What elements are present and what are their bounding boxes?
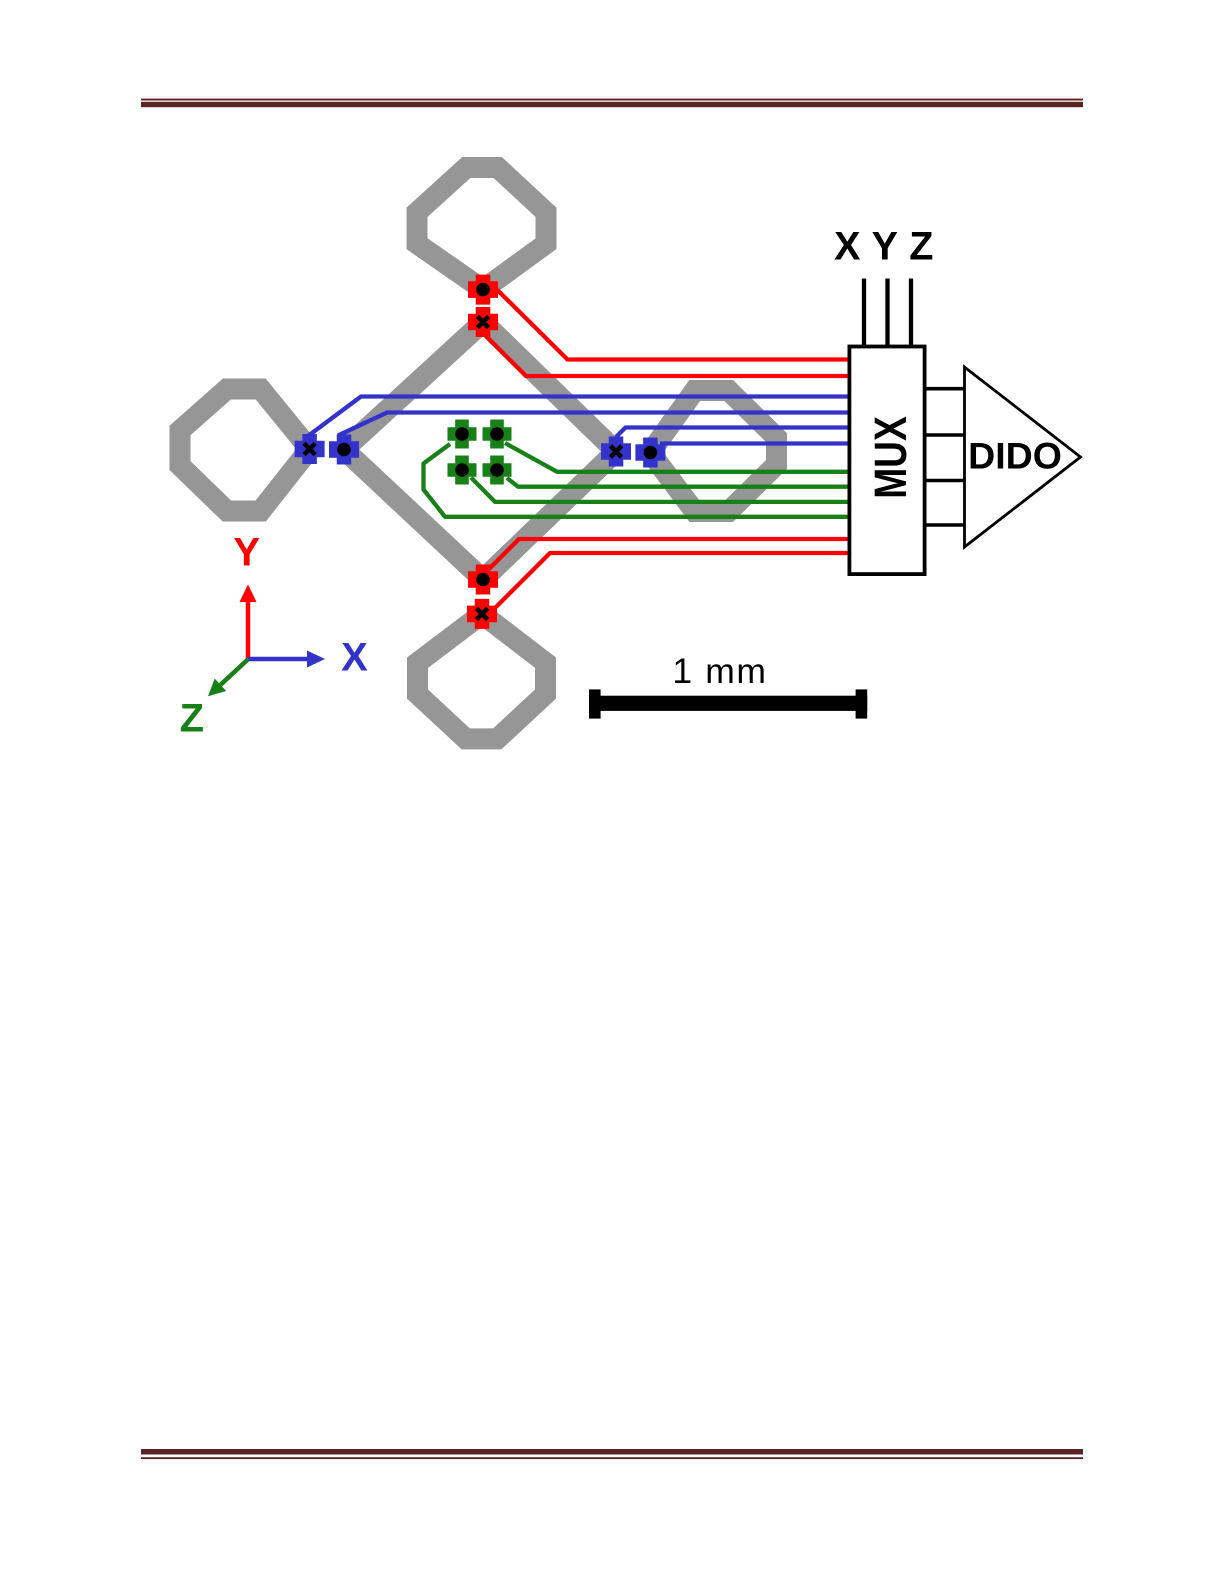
svg-text:Z: Z xyxy=(180,696,204,740)
svg-text:X Y Z: X Y Z xyxy=(834,225,934,269)
svg-text:MUX: MUX xyxy=(865,416,916,499)
svg-text:Y: Y xyxy=(233,531,260,575)
svg-text:1 mm: 1 mm xyxy=(672,651,767,691)
svg-text:X: X xyxy=(341,636,368,680)
svg-text:DIDO: DIDO xyxy=(968,435,1062,477)
